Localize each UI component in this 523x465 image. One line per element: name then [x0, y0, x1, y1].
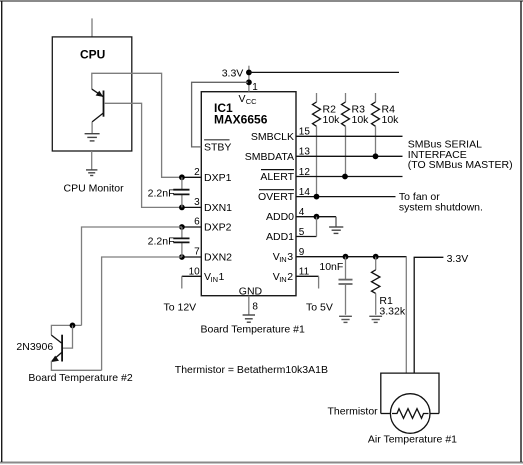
svg-text:SMBDATA: SMBDATA: [245, 151, 294, 163]
frame left: [1, 1, 3, 462]
svg-text:14: 14: [299, 187, 311, 198]
transistor Q-CPU (thermal PNP inside CPU): [92, 89, 104, 122]
wire Q-CPU emitter route to DXP1: [92, 73, 182, 177]
svg-text:3: 3: [287, 251, 293, 263]
wire Q-CPU base route to DXN1: [104, 103, 182, 207]
pin 6 DXP2: [182, 226, 201, 228]
thermistor zigzag: [392, 409, 429, 419]
svg-text:12: 12: [299, 167, 311, 178]
svg-text:11: 11: [299, 267, 310, 278]
svg-text:10nF: 10nF: [319, 261, 343, 273]
svg-text:CPU: CPU: [80, 48, 105, 62]
svg-text:CPU Monitor: CPU Monitor: [64, 183, 125, 195]
pin 5 ADD1: [296, 236, 317, 238]
ground below CPU box: [86, 170, 97, 176]
svg-text:Board Temperature #2: Board Temperature #2: [28, 372, 132, 384]
svg-text:8: 8: [252, 301, 258, 312]
resistor R3: [345, 93, 347, 102]
frame top: [0, 0, 523, 2]
wire To 12V stub: [181, 276, 183, 288]
resistor R2: [316, 93, 318, 102]
wire 3.3V top rail: [249, 71, 399, 73]
wire VIN3 to thermistor: [405, 257, 407, 373]
IC1 box: [201, 92, 296, 296]
label STBY with overline: [204, 139, 229, 141]
transistor Q2 emitter diagonal: [52, 352, 62, 361]
svg-text:3.3V: 3.3V: [447, 253, 469, 265]
wire 3.3V right stub: [414, 257, 443, 373]
node dot 3.3V: [246, 70, 252, 76]
wire To 5V stub: [318, 276, 320, 288]
svg-text:ALERT: ALERT: [260, 171, 294, 183]
wire Q2 base drop: [63, 325, 73, 348]
pin 12 ALERT: [296, 176, 403, 178]
svg-text:SMBCLK: SMBCLK: [251, 131, 294, 143]
ground pin 8: [243, 315, 255, 322]
pin 13 SMBDATA: [296, 155, 403, 157]
svg-text:1: 1: [219, 271, 225, 283]
svg-text:10k: 10k: [382, 114, 400, 126]
arrowhead Q2 emitter: [51, 356, 59, 363]
wire Q-CPU collector: [91, 122, 93, 133]
svg-text:3: 3: [194, 197, 200, 208]
svg-text:DXN1: DXN1: [204, 202, 232, 214]
thermistor circle: [390, 394, 430, 434]
svg-text:ADD0: ADD0: [266, 211, 294, 223]
svg-text:Board Temperature #1: Board Temperature #1: [201, 323, 305, 335]
node dot Q2 base-collector: [70, 323, 76, 329]
wire DXN2 route to Q2 emitter: [102, 257, 182, 370]
thermistor box: [381, 373, 439, 413]
svg-text:2.2nF: 2.2nF: [148, 187, 175, 199]
arrowhead Q-CPU emitter: [96, 91, 104, 97]
svg-text:MAX6656: MAX6656: [214, 113, 268, 127]
transistor Q2 bar: [61, 335, 63, 362]
pin 10 VIN1: [182, 275, 202, 277]
CPU box: [52, 37, 132, 151]
svg-text:10: 10: [189, 267, 201, 278]
pin 2 DXP1: [182, 176, 201, 178]
ground R1: [369, 316, 382, 322]
wire CPU top stub: [91, 18, 93, 37]
svg-text:1: 1: [252, 82, 258, 93]
svg-text:2N3906: 2N3906: [16, 341, 53, 353]
capacitor C2 2.2nF leads: [181, 227, 183, 238]
svg-text:15: 15: [299, 127, 311, 138]
transistor Q2 collector diagonal: [51, 335, 61, 343]
wire pin1 vertical: [248, 66, 250, 92]
svg-text:Air Temperature #1: Air Temperature #1: [368, 434, 457, 446]
svg-text:(TO SMBus MASTER): (TO SMBus MASTER): [408, 159, 513, 171]
svg-text:2: 2: [287, 271, 293, 283]
wire Q2 top node: [51, 325, 81, 335]
svg-text:IN: IN: [279, 255, 287, 264]
svg-text:3.32k: 3.32k: [379, 306, 405, 318]
pin 3 DXN1: [182, 206, 201, 208]
svg-text:GND: GND: [239, 286, 263, 298]
wire CPU box bottom to ground: [91, 151, 93, 170]
svg-text:STBY: STBY: [204, 141, 231, 153]
svg-text:OVERT: OVERT: [258, 191, 295, 203]
svg-text:10k: 10k: [323, 114, 341, 126]
svg-text:13: 13: [299, 147, 311, 158]
node dot STBY junction: [246, 79, 252, 85]
capacitor C2 2.2nF plates: [173, 237, 189, 239]
svg-text:5: 5: [299, 227, 305, 238]
wire STBY loop: [192, 82, 248, 147]
capacitor C1 2.2nF plates: [173, 189, 189, 191]
svg-text:2: 2: [194, 167, 200, 178]
svg-text:DXN2: DXN2: [204, 252, 232, 264]
frame right: [520, 1, 522, 462]
svg-text:system shutdown.: system shutdown.: [399, 202, 483, 214]
svg-text:DXP2: DXP2: [204, 222, 232, 234]
wire DXP2 route to Q2: [82, 227, 183, 325]
svg-text:2.2nF: 2.2nF: [148, 235, 175, 247]
svg-text:To 5V: To 5V: [306, 302, 333, 314]
pin 14 OVERT: [296, 196, 396, 198]
svg-text:Thermistor = Betatherm10k3A1B: Thermistor = Betatherm10k3A1B: [175, 364, 328, 376]
resistor R1: [375, 257, 377, 270]
ground inside CPU: [85, 134, 100, 141]
svg-text:ADD1: ADD1: [266, 231, 294, 243]
ground ADD0: [335, 217, 337, 227]
svg-text:DXP1: DXP1: [204, 172, 232, 184]
ground C3: [339, 316, 352, 322]
frame bottom: [0, 462, 523, 464]
pin 8 stub: [248, 296, 250, 315]
svg-text:IN: IN: [211, 275, 219, 284]
capacitor C3 10nF: [345, 257, 347, 279]
svg-text:V: V: [239, 93, 246, 105]
svg-text:10k: 10k: [352, 114, 370, 126]
svg-text:9: 9: [299, 247, 305, 258]
svg-text:7: 7: [194, 247, 200, 258]
resistor R4: [375, 93, 377, 102]
capacitor C1 2.2nF leads: [181, 177, 183, 189]
svg-text:3.3V: 3.3V: [222, 67, 244, 79]
pin 4 ADD0: [296, 216, 336, 218]
svg-text:Thermistor: Thermistor: [328, 406, 379, 418]
svg-text:IN: IN: [279, 275, 287, 284]
svg-text:To 12V: To 12V: [164, 302, 197, 314]
pin 7 DXN2: [182, 256, 201, 258]
wire Q2 emitter to bottom: [51, 361, 101, 370]
pin 15 SMBCLK: [296, 135, 403, 137]
svg-text:6: 6: [194, 217, 200, 228]
pin 11 VIN2: [296, 275, 319, 277]
pin 9 VIN3: [296, 256, 407, 258]
svg-text:4: 4: [299, 207, 305, 218]
svg-text:CC: CC: [246, 97, 257, 106]
